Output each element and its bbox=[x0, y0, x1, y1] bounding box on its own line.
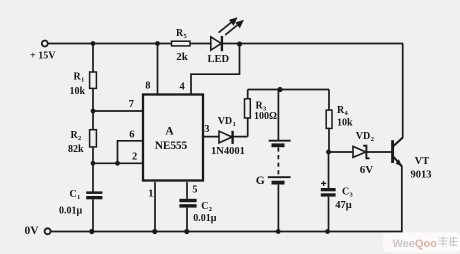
svg-text:WeeQoo: WeeQoo bbox=[393, 238, 438, 250]
svg-text:C: C bbox=[201, 201, 208, 212]
svg-text:100Ω: 100Ω bbox=[254, 111, 277, 122]
svg-text:7: 7 bbox=[129, 99, 134, 110]
svg-text:10k: 10k bbox=[70, 86, 86, 97]
svg-text:VD: VD bbox=[356, 131, 370, 142]
svg-text:10k: 10k bbox=[337, 118, 353, 129]
svg-text:3: 3 bbox=[204, 124, 209, 135]
svg-text:6: 6 bbox=[129, 129, 134, 140]
svg-text:A: A bbox=[165, 125, 174, 137]
svg-text:2: 2 bbox=[132, 152, 137, 163]
svg-text:4: 4 bbox=[180, 81, 186, 92]
svg-text:47μ: 47μ bbox=[335, 200, 352, 211]
svg-text:2: 2 bbox=[78, 135, 81, 142]
svg-text:1: 1 bbox=[81, 77, 84, 84]
svg-text:LED: LED bbox=[208, 54, 230, 65]
svg-text:C: C bbox=[70, 189, 77, 200]
svg-text:1: 1 bbox=[233, 121, 236, 128]
svg-text:82k: 82k bbox=[68, 144, 84, 155]
svg-text:1: 1 bbox=[77, 194, 80, 201]
svg-text:1N4001: 1N4001 bbox=[211, 146, 245, 157]
svg-text:9013: 9013 bbox=[411, 169, 432, 180]
svg-text:2k: 2k bbox=[176, 51, 189, 63]
svg-text:5: 5 bbox=[192, 185, 197, 196]
svg-text:6V: 6V bbox=[360, 164, 374, 176]
svg-text:VT: VT bbox=[415, 156, 430, 167]
svg-text:0.01μ: 0.01μ bbox=[59, 205, 83, 216]
svg-text:2: 2 bbox=[371, 136, 374, 143]
svg-text:+ 15V: + 15V bbox=[30, 50, 56, 61]
svg-text:C: C bbox=[342, 187, 349, 198]
svg-text:NE555: NE555 bbox=[155, 140, 188, 152]
svg-text:0V: 0V bbox=[25, 225, 40, 237]
svg-text:G: G bbox=[256, 175, 265, 187]
svg-text:1: 1 bbox=[148, 189, 153, 200]
svg-text:0.01μ: 0.01μ bbox=[193, 213, 217, 224]
svg-text:VD: VD bbox=[218, 116, 232, 127]
svg-text:8: 8 bbox=[145, 80, 150, 91]
